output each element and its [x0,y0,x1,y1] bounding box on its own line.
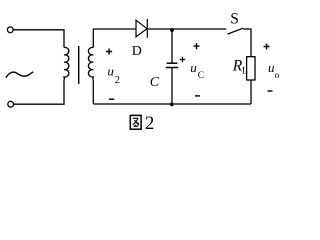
node: bottom junction [170,103,174,107]
diode D [136,19,147,38]
svg-text:C: C [150,75,160,90]
wire: secondary top to diode anode [93,29,136,47]
label + (uC) [194,43,200,49]
label + (uo) [264,44,270,50]
label - (uC) [195,95,200,97]
label - (u2) [109,98,114,100]
capacitor polarity + [180,57,185,62]
label uo [268,60,280,81]
label u2 [107,63,119,86]
wire bottom-left: terminal to primary [14,80,64,104]
svg-text:u: u [190,60,197,75]
terminal (top input) [7,27,13,33]
bottom rail wire [93,103,251,105]
svg-text:S: S [230,11,239,28]
label + (u2) [106,49,112,55]
wire: diode cathode to switch [147,28,226,30]
svg-text:2: 2 [145,113,155,134]
wire: capacitor branch bottom [171,68,173,105]
AC source symbol ~ [6,72,33,78]
wire: capacitor branch top [171,29,173,63]
transformer primary winding [64,47,69,80]
node: top junction [170,28,174,32]
wire: resistor bottom [250,80,252,104]
capacitor C plates [166,63,178,67]
svg-text:o: o [275,71,280,81]
resistor RL body [247,57,255,80]
svg-text:u: u [107,63,114,78]
transformer core [78,46,80,84]
label - (uo) [268,90,273,92]
caption 图 2 [130,113,154,134]
wire top-left: terminal to primary [13,30,64,48]
label uC [190,60,204,81]
wire: switch to resistor top [243,29,251,57]
transformer secondary winding [88,47,93,80]
wire: secondary bottom to rail [92,80,94,104]
svg-text:C: C [198,71,204,81]
switch S blade [228,28,244,34]
terminal (bottom input) [8,101,14,107]
svg-text:2: 2 [115,75,120,86]
svg-text:L: L [242,66,248,76]
svg-text:D: D [132,44,142,59]
